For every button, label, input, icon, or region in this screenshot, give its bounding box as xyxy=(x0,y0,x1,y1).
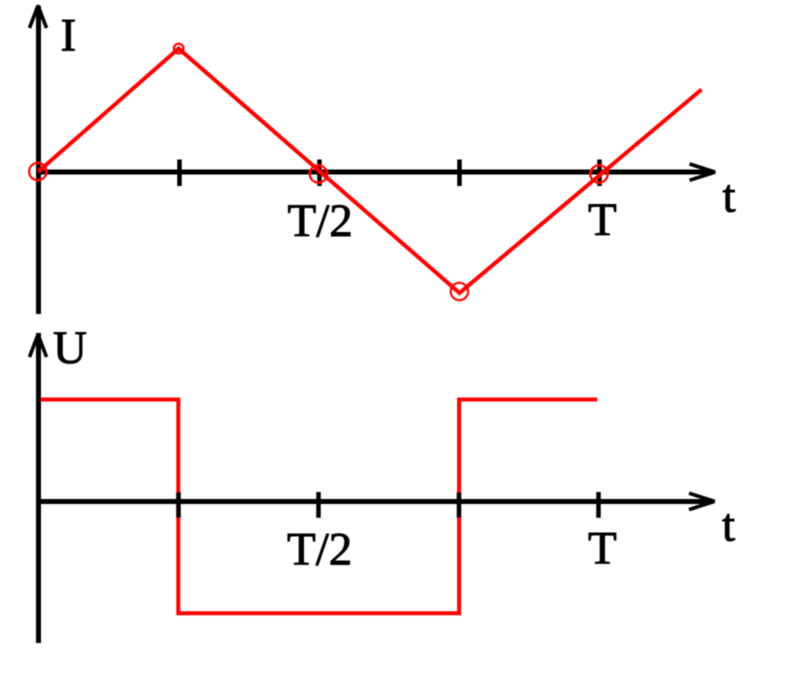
I-axis arrowhead xyxy=(30,6,47,29)
svg-text:T/2: T/2 xyxy=(288,195,353,247)
triangular current waveform I(t) xyxy=(39,49,702,294)
tick T (top) xyxy=(597,160,602,187)
node marker at peak T/4 xyxy=(174,44,184,54)
tick T/2 (top) xyxy=(317,160,322,187)
tick 3T/4 (top) xyxy=(457,160,462,187)
U-axis arrowhead xyxy=(30,335,47,358)
U-axis shaft xyxy=(36,333,41,643)
t-axis shaft (bottom) xyxy=(36,499,712,504)
svg-text:T: T xyxy=(588,194,617,246)
svg-text:T/2: T/2 xyxy=(287,524,352,576)
tick T (bottom) xyxy=(596,492,601,518)
t-axis arrowhead (top) xyxy=(690,164,716,180)
svg-text:U: U xyxy=(53,322,87,374)
t-axis shaft (top) xyxy=(36,170,713,175)
I-axis shaft xyxy=(36,6,41,314)
node marker at origin xyxy=(29,163,46,180)
svg-text:I: I xyxy=(61,10,77,62)
t-axis arrowhead (bottom) xyxy=(689,493,715,509)
svg-text:t: t xyxy=(722,500,735,552)
tick 3T/4 (bottom) xyxy=(457,492,462,518)
svg-text:T: T xyxy=(588,523,617,575)
svg-text:t: t xyxy=(723,171,736,223)
square voltage waveform U(t) xyxy=(41,400,597,614)
node marker at T xyxy=(590,165,607,182)
tick T/4 (bottom) xyxy=(176,492,181,518)
tick T/4 (top) xyxy=(177,160,182,187)
node marker at minimum 3T/4 xyxy=(451,283,468,300)
node marker at T/2 xyxy=(310,165,327,182)
tick T/2 (bottom) xyxy=(316,492,321,518)
